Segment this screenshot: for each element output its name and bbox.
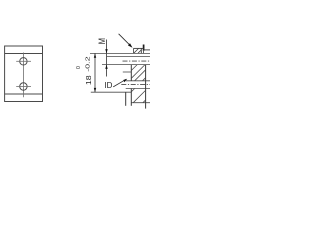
arrow down at top face: [105, 49, 107, 53]
top face left of stud y48.4: [134, 47, 144, 49]
arrow up at lower face: [105, 65, 107, 69]
hatch bottom band y88.5-102.7: [131, 89, 146, 103]
svg-text:18: 18: [85, 75, 93, 85]
line y88.5: [126, 88, 150, 90]
chamfer box top: hatch: [134, 48, 142, 53]
hole 1 circle: [20, 58, 27, 65]
hole 1 crosshair: [16, 60, 31, 62]
top face right of stud y49.9: [144, 49, 150, 51]
part left edge x131.3: [130, 65, 132, 81]
ID leader: [113, 79, 126, 87]
hole 2 crosshair: [16, 86, 31, 88]
svg-text:ID: ID: [104, 80, 112, 90]
line y56.4: [107, 55, 151, 57]
flange line top: [5, 53, 43, 55]
chamfer box right edge: [140, 48, 142, 53]
svg-text:-0.2: -0.2: [84, 56, 91, 71]
arrow down tip: [94, 88, 96, 92]
notch line y72: [123, 71, 132, 73]
center dash line y84.4: [121, 83, 150, 85]
chamfer box left edge: [133, 48, 135, 53]
dim line 18: [94, 53, 96, 92]
M dim line vertical: [106, 40, 108, 77]
stud edge thin continuation: [143, 51, 145, 54]
arrow up tip: [94, 53, 96, 57]
flange line bottom: [5, 93, 43, 95]
hatch mid band y64.6-80.8: [131, 65, 145, 81]
hole 2 circle: [20, 83, 27, 90]
bottom extension line y92.2: [91, 91, 132, 93]
svg-text:M: M: [96, 38, 107, 44]
line y64.6: [102, 64, 150, 66]
left view: plate outline: [5, 46, 43, 102]
inner bore edge x145.6: [145, 65, 147, 109]
step vertical x125.7: [125, 92, 127, 106]
line y80.8: [126, 80, 150, 82]
svg-text:0: 0: [76, 66, 82, 69]
thick stud edge x143.6: [143, 45, 145, 51]
bottom face line y102.7: [131, 102, 150, 104]
center dash line y61: [123, 60, 151, 62]
extension line top face y53.4: [90, 52, 150, 54]
centerline vertical: [22, 53, 24, 98]
leader arrow to top chamfer: [119, 34, 131, 46]
